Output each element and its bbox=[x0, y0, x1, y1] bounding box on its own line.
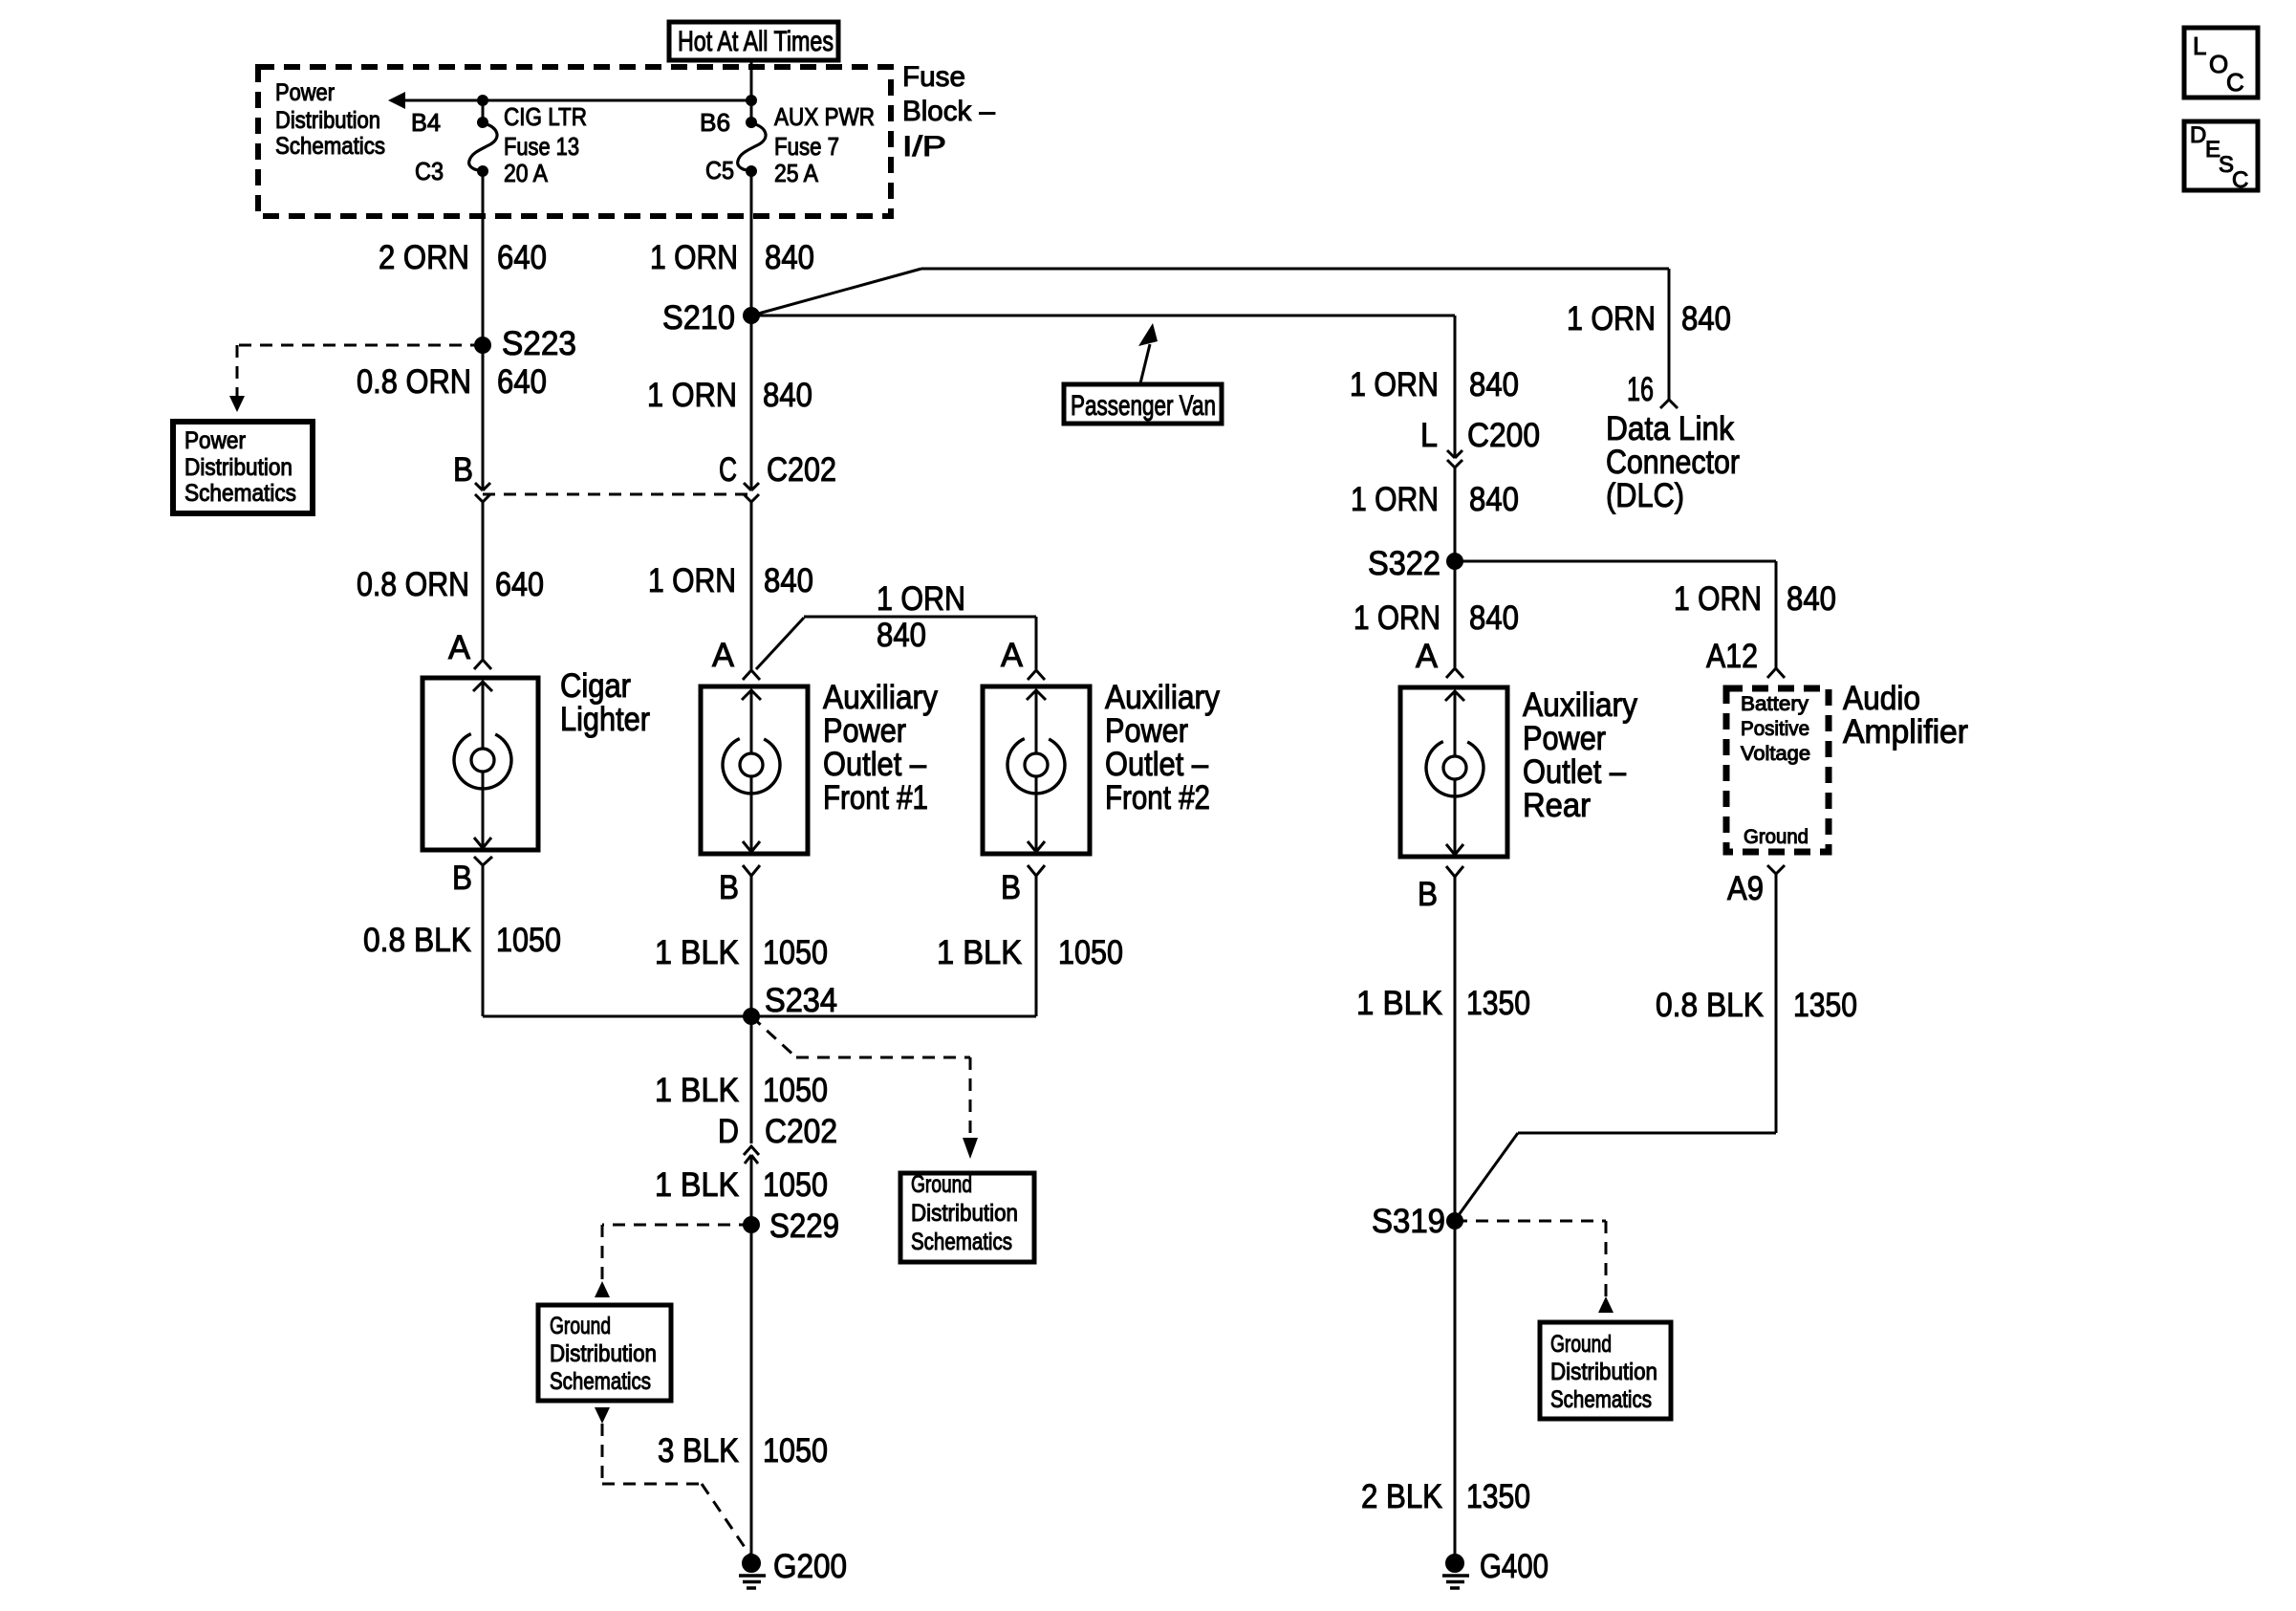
label: pin C3 bbox=[415, 157, 444, 185]
svg-text:B: B bbox=[1418, 876, 1438, 913]
svg-text:Power: Power bbox=[184, 427, 246, 454]
svg-text:840: 840 bbox=[1469, 599, 1519, 637]
svg-text:G200: G200 bbox=[773, 1548, 847, 1585]
svg-text:A: A bbox=[1001, 637, 1024, 674]
wire - S223 to connector C202 pin B (0.8 ORN 640) bbox=[482, 345, 485, 490]
label: Cigar Lighter bbox=[560, 667, 650, 738]
connector C200 halves on rear outlet wire bbox=[1447, 450, 1462, 468]
wire - jumper outlet #1 pin A to outlet #2 pin A (1 ORN 840) bbox=[756, 617, 1036, 669]
svg-text:A: A bbox=[712, 637, 735, 674]
wire - bus drop to B6 bbox=[750, 100, 753, 122]
splice S234 bbox=[744, 982, 838, 1025]
svg-text:S229: S229 bbox=[769, 1208, 839, 1245]
label: pin B at C202 bbox=[453, 451, 473, 489]
svg-text:Block –: Block – bbox=[902, 96, 995, 127]
wire - ground bus S234 horizontal bbox=[483, 1015, 1036, 1018]
svg-text:0.8 BLK: 0.8 BLK bbox=[1656, 987, 1764, 1024]
label: Auxiliary Power Outlet - Front #1 bbox=[823, 679, 938, 816]
svg-text:840: 840 bbox=[1681, 300, 1731, 337]
svg-text:840: 840 bbox=[765, 239, 814, 276]
label: 2 ORN 640 bbox=[379, 239, 547, 276]
pin B connector (outlet front #2) bbox=[1028, 865, 1045, 876]
svg-text:Distribution: Distribution bbox=[1550, 1359, 1657, 1385]
svg-text:Outlet –: Outlet – bbox=[1523, 753, 1626, 791]
label: CIG LTR Fuse 13 20 A bbox=[504, 102, 587, 187]
svg-text:A12: A12 bbox=[1706, 638, 1758, 675]
svg-text:C: C bbox=[2232, 167, 2248, 193]
svg-text:B6: B6 bbox=[700, 108, 730, 137]
svg-text:16: 16 bbox=[1627, 371, 1654, 408]
label: 1 ORN 840 (DLC feed) bbox=[1567, 300, 1731, 337]
svg-text:Audio: Audio bbox=[1843, 680, 1920, 717]
pin A connector (outlet front #1) bbox=[743, 670, 760, 680]
splice S223 bbox=[475, 325, 577, 362]
connector C202 halves on cigar lighter wire bbox=[475, 483, 490, 502]
svg-text:Distribution: Distribution bbox=[911, 1200, 1018, 1227]
wire - cigar lighter pin B to S234 junction line (0.8 BLK 1050) bbox=[482, 865, 485, 1016]
svg-text:3 BLK: 3 BLK bbox=[658, 1432, 739, 1469]
svg-text:B: B bbox=[719, 869, 739, 906]
label: Ground (in amplifier) bbox=[1744, 826, 1809, 848]
svg-text:S322: S322 bbox=[1368, 545, 1440, 582]
label: 1 ORN 840 (above S322) bbox=[1351, 481, 1519, 518]
label: pin B (cigar lighter) bbox=[452, 860, 472, 897]
fuse F13 (CIG LTR Fuse 13 20 A) element bbox=[469, 118, 497, 177]
label: AUX PWR Fuse 7 25 A bbox=[774, 102, 875, 187]
label: 0.8 BLK 1050 bbox=[363, 922, 561, 959]
svg-text:1050: 1050 bbox=[763, 1432, 828, 1469]
wire - outlet rear pin B to S319 (1 BLK 1350) bbox=[1454, 877, 1457, 1221]
callout arrow to Passenger Van bbox=[1138, 323, 1158, 383]
splice S229 bbox=[744, 1208, 840, 1245]
label: connector C200 bbox=[1467, 417, 1540, 454]
label: Audio Amplifier bbox=[1843, 680, 1968, 751]
label: 1 ORN 840 (below S210) bbox=[647, 377, 812, 414]
svg-text:Fuse: Fuse bbox=[902, 61, 965, 93]
dashed reference from S319 to Ground Distribution Schematics bbox=[1455, 1221, 1614, 1313]
svg-text:S210: S210 bbox=[662, 299, 735, 337]
label: Power Distribution Schematics (inside fuse block) bbox=[275, 79, 385, 160]
wire - outlet #2 pin B to ground bus (1 BLK 1050) bbox=[1035, 876, 1038, 1016]
label: 0.8 ORN 640 (above cigar lighter) bbox=[357, 566, 544, 603]
wire - C202 pin D to S229 (1 BLK 1050) bbox=[750, 1155, 753, 1225]
outlet rear element symbol bbox=[1425, 691, 1484, 855]
ground G200 bbox=[739, 1548, 847, 1588]
svg-text:Front #1: Front #1 bbox=[823, 779, 928, 816]
label: pin A (outlet front #2) bbox=[1001, 637, 1024, 674]
label: 1 BLK 1350 bbox=[1356, 985, 1530, 1022]
svg-text:840: 840 bbox=[763, 377, 812, 414]
node: Ground Distribution Schematics box (S229) bbox=[538, 1305, 671, 1401]
svg-text:A9: A9 bbox=[1727, 870, 1764, 907]
wire - S234 to C202 pin D (1 BLK 1050) bbox=[750, 1016, 753, 1143]
label: Auxiliary Power Outlet - Rear bbox=[1523, 686, 1637, 824]
label: pin B (outlet front #1) bbox=[719, 869, 739, 906]
svg-text:640: 640 bbox=[497, 363, 547, 401]
svg-text:Ground: Ground bbox=[911, 1171, 972, 1198]
svg-text:Positive: Positive bbox=[1741, 718, 1809, 740]
svg-text:Lighter: Lighter bbox=[560, 701, 650, 738]
svg-text:840: 840 bbox=[1787, 580, 1836, 618]
component box: Auxiliary Power Outlet Front #1 bbox=[701, 686, 808, 854]
svg-text:L: L bbox=[1420, 417, 1438, 454]
label: connector C202 (lower) bbox=[765, 1113, 837, 1150]
svg-text:S223: S223 bbox=[502, 325, 576, 362]
label: pin C5 bbox=[705, 156, 734, 185]
connector C202 halves on ground wire bbox=[744, 1146, 759, 1164]
wire - amplifier A9 to S319 (0.8 BLK 1350) bbox=[1456, 874, 1776, 1219]
component dashed box: Audio Amplifier bbox=[1726, 688, 1829, 852]
connector C202 halves on outlet #1 wire bbox=[744, 483, 759, 502]
svg-text:1350: 1350 bbox=[1793, 987, 1857, 1024]
svg-text:1 BLK: 1 BLK bbox=[655, 1072, 739, 1109]
node: DESC legend box bbox=[2184, 121, 2258, 193]
wire - S322 to rear outlet pin A (1 ORN 840) bbox=[1454, 561, 1457, 667]
label: 3 BLK 1050 bbox=[658, 1432, 828, 1469]
wire - S210 branch to rear outlet circuit bbox=[751, 316, 1455, 458]
ground G400 bbox=[1442, 1548, 1549, 1588]
pin A connector (cigar lighter) bbox=[474, 660, 491, 669]
svg-text:1 BLK: 1 BLK bbox=[655, 934, 739, 971]
svg-text:S234: S234 bbox=[765, 982, 837, 1019]
svg-text:2 ORN: 2 ORN bbox=[379, 239, 469, 276]
junction on bus at AUX PWR fuse bbox=[747, 96, 757, 106]
dashed reference from S229 to Ground Distribution Schematics bbox=[595, 1225, 751, 1297]
pin A connector (outlet rear) bbox=[1446, 668, 1463, 678]
label: 0.8 ORN 640 (above C202) bbox=[357, 363, 547, 401]
node: Ground Distribution Schematics box (S234) bbox=[900, 1171, 1034, 1262]
svg-text:L: L bbox=[2193, 32, 2206, 60]
wire - feed from Hot At All Times box into fuse block bbox=[750, 60, 753, 100]
svg-text:Fuse 13: Fuse 13 bbox=[504, 132, 579, 161]
svg-text:C: C bbox=[2226, 68, 2244, 97]
svg-text:Voltage: Voltage bbox=[1741, 743, 1810, 765]
svg-text:1350: 1350 bbox=[1466, 1478, 1530, 1515]
svg-text:C: C bbox=[719, 451, 737, 489]
wire - C202 pin C to outlet #1 pin A bbox=[750, 502, 753, 669]
svg-text:20 A: 20 A bbox=[504, 159, 549, 187]
label: pin L at C200 bbox=[1420, 417, 1438, 454]
wire - S319 to G400 (2 BLK 1350) bbox=[1454, 1221, 1457, 1563]
pin A9 connector (amplifier) bbox=[1767, 865, 1785, 874]
label: pin D at C202 bbox=[718, 1113, 739, 1150]
svg-text:Amplifier: Amplifier bbox=[1843, 713, 1968, 751]
svg-text:1 ORN: 1 ORN bbox=[1567, 300, 1656, 337]
svg-text:A: A bbox=[1416, 638, 1439, 675]
svg-text:1 ORN: 1 ORN bbox=[1674, 580, 1762, 618]
svg-text:840: 840 bbox=[877, 617, 926, 654]
label: 1 BLK 1050 (outlet #1) bbox=[655, 934, 828, 971]
label: pin A (cigar lighter) bbox=[448, 629, 471, 666]
svg-text:AUX PWR: AUX PWR bbox=[774, 102, 875, 131]
svg-text:1 ORN: 1 ORN bbox=[650, 239, 738, 276]
svg-text:C202: C202 bbox=[765, 1113, 837, 1150]
node: LOC legend box bbox=[2184, 28, 2258, 98]
wire - S210 to connector C202 pin C (1 ORN 840) bbox=[750, 316, 753, 490]
pin B connector (outlet front #1) bbox=[743, 865, 760, 876]
svg-text:Schematics: Schematics bbox=[911, 1229, 1012, 1255]
svg-text:Hot At All Times: Hot At All Times bbox=[678, 26, 834, 57]
dashed reference from S223 to Power Distribution Schematics box bbox=[229, 345, 483, 412]
svg-text:25 A: 25 A bbox=[774, 159, 819, 187]
label: Auxiliary Power Outlet - Front #2 bbox=[1105, 679, 1220, 816]
svg-text:Schematics: Schematics bbox=[275, 133, 385, 160]
label: pin C at C202 bbox=[719, 451, 737, 489]
label: 1 ORN 840 (amplifier feed) bbox=[1674, 580, 1836, 618]
svg-text:Front #2: Front #2 bbox=[1105, 779, 1210, 816]
svg-text:Power: Power bbox=[823, 712, 906, 750]
node: Passenger Van tag box bbox=[1064, 384, 1222, 424]
dashed reference from S234 to Ground Distribution Schematics bbox=[751, 1016, 978, 1159]
label: 1 ORN 840 (jumper) bbox=[877, 580, 965, 654]
wire - S322 branch to audio amplifier bbox=[1455, 561, 1776, 668]
svg-text:C200: C200 bbox=[1467, 417, 1540, 454]
svg-text:1 BLK: 1 BLK bbox=[1356, 985, 1442, 1022]
svg-text:840: 840 bbox=[1469, 481, 1519, 518]
splice S322 bbox=[1368, 545, 1463, 582]
svg-text:Fuse 7: Fuse 7 bbox=[774, 132, 839, 161]
wire - fuse block bus with arrow to Power Distribution Schematics bbox=[388, 92, 751, 109]
splice S319 bbox=[1372, 1203, 1463, 1240]
svg-text:Power: Power bbox=[1105, 712, 1188, 750]
svg-text:B4: B4 bbox=[411, 108, 441, 137]
wire - C5 to S210 (1 ORN 840) bbox=[750, 171, 753, 316]
svg-text:Auxiliary: Auxiliary bbox=[1523, 686, 1637, 724]
label: 1 ORN 840 (above outlet #1) bbox=[648, 562, 813, 599]
svg-text:Power: Power bbox=[275, 79, 335, 106]
svg-text:Schematics: Schematics bbox=[1550, 1386, 1652, 1413]
svg-text:Outlet –: Outlet – bbox=[823, 746, 926, 783]
svg-text:Ground: Ground bbox=[1744, 826, 1809, 848]
svg-text:1 BLK: 1 BLK bbox=[655, 1166, 739, 1204]
svg-text:640: 640 bbox=[497, 239, 547, 276]
fuse block dashed outline (Fuse Block - I/P) bbox=[258, 67, 891, 216]
svg-text:Rear: Rear bbox=[1523, 787, 1591, 824]
label: pin A12 bbox=[1706, 638, 1758, 675]
svg-text:1050: 1050 bbox=[1058, 934, 1123, 971]
outlet front #1 element symbol bbox=[722, 690, 780, 852]
label: pin 16 bbox=[1627, 371, 1654, 408]
label: pin B6 bbox=[700, 108, 730, 137]
svg-text:Passenger Van: Passenger Van bbox=[1071, 390, 1216, 422]
svg-text:Cigar: Cigar bbox=[560, 667, 631, 705]
svg-text:1 ORN: 1 ORN bbox=[1354, 599, 1440, 637]
wire - outlet #1 pin B to S234 (1 BLK 1050) bbox=[750, 876, 753, 1016]
wire - C200 to S322 (1 ORN 840) bbox=[1454, 468, 1457, 561]
svg-text:2 BLK: 2 BLK bbox=[1361, 1478, 1442, 1515]
svg-text:0.8 ORN: 0.8 ORN bbox=[357, 363, 471, 401]
svg-text:1050: 1050 bbox=[763, 934, 828, 971]
svg-text:(DLC): (DLC) bbox=[1606, 477, 1684, 514]
dashed connector line C202 between pin B and pin C bbox=[483, 493, 751, 496]
pin A connector (outlet front #2) bbox=[1028, 670, 1045, 680]
svg-text:B: B bbox=[1001, 869, 1021, 906]
svg-text:Distribution: Distribution bbox=[275, 107, 380, 134]
svg-text:1050: 1050 bbox=[763, 1072, 828, 1109]
svg-text:1 ORN: 1 ORN bbox=[1351, 481, 1439, 518]
svg-text:1 ORN: 1 ORN bbox=[647, 377, 737, 414]
svg-text:C3: C3 bbox=[415, 157, 444, 185]
component box: Auxiliary Power Outlet Front #2 bbox=[983, 686, 1090, 854]
label: Data Link Connector (DLC) bbox=[1606, 410, 1740, 514]
svg-text:1 BLK: 1 BLK bbox=[937, 934, 1022, 971]
wire - bus drop to B4 bbox=[482, 100, 485, 122]
label: pin A9 bbox=[1727, 870, 1764, 907]
svg-text:Ground: Ground bbox=[1550, 1331, 1612, 1358]
svg-text:Ground: Ground bbox=[550, 1313, 611, 1339]
label: 1 BLK 1050 (above S229) bbox=[655, 1166, 828, 1204]
label: 1 BLK 1050 (outlet #2) bbox=[937, 934, 1123, 971]
pin A12 connector (amplifier) bbox=[1767, 668, 1785, 678]
label: connector C202 (upper) bbox=[767, 451, 836, 489]
label: pin B (outlet rear) bbox=[1418, 876, 1438, 913]
label: Battery Positive Voltage (in amplifier) bbox=[1741, 693, 1810, 765]
label: 1 BLK 1050 (above C202 D) bbox=[655, 1072, 828, 1109]
svg-text:A: A bbox=[448, 629, 471, 666]
connector pin 16 at DLC bbox=[1660, 400, 1678, 408]
svg-text:Distribution: Distribution bbox=[550, 1340, 657, 1367]
svg-text:640: 640 bbox=[495, 566, 544, 603]
svg-text:C202: C202 bbox=[767, 451, 836, 489]
wire - C3 to S223 (2 ORN 640) bbox=[482, 171, 485, 345]
label: 2 BLK 1350 bbox=[1361, 1478, 1530, 1515]
svg-text:1 ORN: 1 ORN bbox=[648, 562, 736, 599]
svg-text:Battery: Battery bbox=[1741, 693, 1809, 715]
svg-text:D: D bbox=[2190, 122, 2206, 148]
svg-text:Connector: Connector bbox=[1606, 444, 1740, 481]
svg-text:CIG LTR: CIG LTR bbox=[504, 102, 587, 131]
node: Ground Distribution Schematics box (S319) bbox=[1540, 1322, 1671, 1419]
svg-text:G400: G400 bbox=[1480, 1548, 1549, 1585]
dashed reference from Ground Distribution Schematics to G200 bbox=[595, 1407, 752, 1558]
label: pin B4 bbox=[411, 108, 441, 137]
label: pin A (outlet rear) bbox=[1416, 638, 1439, 675]
component box: Auxiliary Power Outlet Rear bbox=[1400, 687, 1507, 857]
label: 1 ORN 840 (col2 top) bbox=[650, 239, 814, 276]
label: 1 ORN 840 (above rear outlet) bbox=[1354, 599, 1519, 637]
svg-text:D: D bbox=[718, 1113, 739, 1150]
component box: Cigar Lighter bbox=[422, 678, 538, 850]
svg-text:B: B bbox=[453, 451, 473, 489]
pin B connector (cigar lighter) bbox=[474, 857, 492, 865]
node: Hot At All Times feed box bbox=[669, 22, 838, 60]
svg-text:B: B bbox=[452, 860, 472, 897]
svg-text:C5: C5 bbox=[705, 156, 734, 185]
label: 0.8 BLK 1350 bbox=[1656, 987, 1857, 1024]
label: Fuse Block - I/P bbox=[902, 61, 995, 163]
svg-text:0.8 ORN: 0.8 ORN bbox=[357, 566, 469, 603]
svg-text:840: 840 bbox=[764, 562, 813, 599]
wire - S210 branch to Data Link Connector bbox=[751, 269, 1669, 400]
outlet front #2 element symbol bbox=[1007, 690, 1065, 852]
svg-text:1050: 1050 bbox=[496, 922, 561, 959]
label: pin B (outlet front #2) bbox=[1001, 869, 1021, 906]
splice S210 bbox=[662, 299, 760, 337]
svg-text:I/P: I/P bbox=[902, 131, 946, 163]
wire - C202 pin B to cigar lighter pin A bbox=[482, 502, 485, 659]
svg-text:Auxiliary: Auxiliary bbox=[1105, 679, 1220, 716]
node: Power Distribution Schematics reference box bbox=[173, 422, 313, 513]
svg-text:Data Link: Data Link bbox=[1606, 410, 1734, 447]
svg-text:Schematics: Schematics bbox=[550, 1368, 651, 1395]
cigar lighter element symbol bbox=[453, 682, 511, 848]
label: 1 ORN 840 (above C200) bbox=[1350, 366, 1519, 403]
wire - S229 to G200 (3 BLK 1050) bbox=[750, 1225, 753, 1563]
svg-text:1 ORN: 1 ORN bbox=[877, 580, 965, 618]
svg-text:Distribution: Distribution bbox=[184, 454, 292, 481]
junction on bus at CIG LTR fuse bbox=[478, 96, 488, 106]
svg-text:1050: 1050 bbox=[763, 1166, 828, 1204]
svg-text:S319: S319 bbox=[1372, 1203, 1445, 1240]
svg-text:Auxiliary: Auxiliary bbox=[823, 679, 938, 716]
svg-text:1 ORN: 1 ORN bbox=[1350, 366, 1439, 403]
pin B connector (outlet rear) bbox=[1446, 866, 1463, 877]
svg-text:Outlet –: Outlet – bbox=[1105, 746, 1208, 783]
svg-text:0.8 BLK: 0.8 BLK bbox=[363, 922, 471, 959]
svg-text:Power: Power bbox=[1523, 720, 1606, 757]
label: pin A (outlet front #1) bbox=[712, 637, 735, 674]
svg-text:Schematics: Schematics bbox=[184, 480, 296, 507]
fuse F7 (AUX PWR Fuse 7 25 A) element bbox=[738, 118, 766, 177]
svg-text:1350: 1350 bbox=[1466, 985, 1530, 1022]
svg-text:840: 840 bbox=[1469, 366, 1519, 403]
